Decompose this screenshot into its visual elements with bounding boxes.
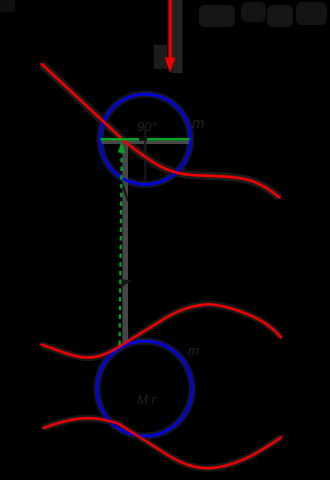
svg-text:m: m bbox=[192, 115, 205, 132]
halo under bottom upper branch bbox=[42, 304, 282, 357]
faint corner artifact square bbox=[0, 0, 15, 12]
artifact band right of green vertical bbox=[122, 143, 128, 345]
svg-text:M r: M r bbox=[137, 392, 156, 407]
osculating circle 1 bbox=[100, 94, 190, 184]
halo under circle 2 bbox=[97, 341, 192, 436]
red curve (top figure) bbox=[42, 64, 280, 198]
osculating circle 2 bbox=[97, 341, 192, 436]
black tick on green vertical bbox=[120, 279, 133, 287]
halo under top red curve bbox=[42, 64, 280, 198]
artifact block left of arrow tip bbox=[154, 45, 167, 69]
red curve lower branch (bottom figure) bbox=[44, 418, 282, 468]
ghost artifact blobs along top edge bbox=[199, 5, 235, 27]
svg-text:m: m bbox=[188, 343, 199, 358]
black radius line circle 1 centre to bottom bbox=[144, 139, 146, 184]
green horizontal diameter bbox=[101, 138, 140, 141]
red curve upper branch (bottom figure) bbox=[42, 304, 282, 357]
halo under circle 1 bbox=[100, 94, 190, 184]
artifact band under green horizontal bbox=[100, 141, 191, 144]
halo under bottom lower branch bbox=[44, 418, 282, 468]
green vertical dashed line with up arrowhead bbox=[120, 152, 122, 345]
red arrow at top bbox=[168, 0, 171, 59]
artifact band right of red arrow bbox=[172, 0, 183, 73]
black diagonal streak below circle 1 bbox=[121, 180, 128, 201]
svg-text:90°: 90° bbox=[137, 119, 157, 134]
